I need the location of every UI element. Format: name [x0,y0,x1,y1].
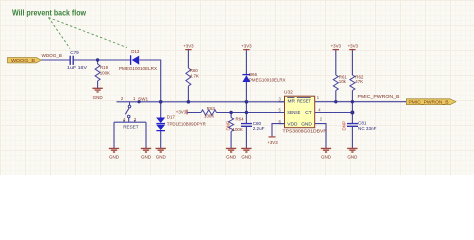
svg-text:GND: GND [241,155,252,160]
svg-text:+3V3: +3V3 [348,44,359,49]
svg-text:GND: GND [109,155,120,160]
svg-text:R19: R19 [100,65,109,70]
svg-text:NC 33nF: NC 33nF [358,126,377,131]
svg-text:Will prevent back flow: Will prevent back flow [12,8,87,17]
svg-text:GND: GND [141,155,152,160]
svg-text:GND: GND [347,155,358,160]
svg-text:+3V3: +3V3 [331,44,342,49]
svg-text:+3V3: +3V3 [176,110,187,115]
svg-text:GND: GND [226,155,237,160]
svg-text:U32: U32 [284,90,293,96]
svg-text:100K: 100K [204,114,214,119]
svg-text:WDOG_B: WDOG_B [42,53,63,58]
svg-text:2.2uF: 2.2uF [253,126,265,131]
svg-text:R64: R64 [236,116,245,121]
svg-text:SENSE: SENSE [287,110,300,116]
svg-text:PMIC_PWRON_B: PMIC_PWRON_B [409,99,449,104]
svg-text:1uF 16V: 1uF 16V [67,65,88,70]
svg-text:MR: MR [288,98,296,104]
svg-text:PMIC_PWRON_B: PMIC_PWRON_B [358,94,400,99]
svg-text:DNP: DNP [225,121,230,131]
svg-text:D17: D17 [167,114,176,119]
svg-text:DNP: DNP [341,121,346,131]
svg-text:C81: C81 [358,120,367,125]
svg-text:GND: GND [301,122,312,128]
svg-text:SW1: SW1 [138,96,149,101]
svg-text:TPS3808G01DBVR: TPS3808G01DBVR [283,129,328,135]
svg-text:PMEG10010ELRX: PMEG10010ELRX [119,66,158,71]
svg-text:GND: GND [321,155,332,160]
svg-text:WDOG_B: WDOG_B [11,58,35,63]
svg-text:C80: C80 [253,121,262,126]
svg-text:+3V3: +3V3 [267,140,278,145]
svg-text:RESET: RESET [297,98,311,104]
svg-text:100K: 100K [233,127,243,132]
svg-text:RESET: RESET [123,124,139,129]
svg-text:+3V3: +3V3 [183,44,194,49]
svg-text:GND: GND [156,155,167,160]
svg-text:PMEG10010ELRX: PMEG10010ELRX [249,77,286,82]
svg-text:47K: 47K [355,79,363,84]
svg-text:GND: GND [93,95,104,100]
svg-text:100K: 100K [100,71,110,76]
svg-text:C79: C79 [70,50,79,55]
svg-text:R63: R63 [207,106,216,111]
svg-text:+3V3: +3V3 [241,44,252,49]
svg-text:R60: R60 [190,68,199,73]
svg-text:VDD: VDD [287,122,298,128]
svg-text:CT: CT [305,110,311,116]
svg-text:D13: D13 [131,49,140,54]
svg-text:10k: 10k [339,79,347,84]
svg-text:TPD1E10B09DPYR: TPD1E10B09DPYR [167,121,207,126]
svg-text:4.7K: 4.7K [190,73,199,78]
